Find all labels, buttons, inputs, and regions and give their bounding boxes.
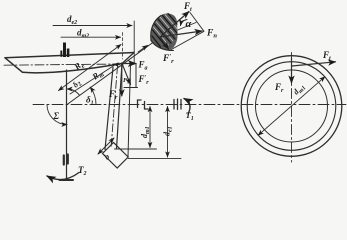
svg-text:de2: de2	[67, 14, 77, 26]
force F_t arrow at contact	[160, 12, 189, 38]
tooth contact hatched blob	[151, 14, 178, 50]
face width b dimension	[98, 138, 114, 154]
force F_n arrow at contact	[160, 31, 202, 37]
pinion body right edge	[117, 64, 123, 149]
force F_r arrow at P	[121, 64, 123, 97]
svg-text:Ft: Ft	[183, 1, 192, 13]
second break marks near T1	[174, 99, 181, 110]
d_m2 extension line	[121, 33, 123, 60]
pinion end cap	[103, 143, 129, 169]
wheel gear2 rim outline	[5, 53, 134, 73]
tooth flank outline left	[151, 16, 161, 41]
shaft break marks on vertical axis	[64, 155, 68, 165]
angle delta1 arc	[90, 87, 96, 104]
angle alpha arc	[181, 20, 188, 26]
hub key symbol	[60, 43, 69, 58]
R_m arrowhead on pitch line	[114, 63, 120, 66]
angle delta2 arc	[67, 89, 79, 95]
force F_a arrow at pitch point	[122, 63, 136, 65]
svg-text:T2: T2	[78, 165, 87, 177]
svg-text:dm2: dm2	[77, 28, 89, 40]
dimension d_e1 vertical	[167, 107, 169, 158]
pinion cone line OP extended to contact point	[67, 37, 161, 105]
svg-text:F′r: F′r	[162, 53, 174, 65]
svg-text:F′r: F′r	[138, 74, 150, 86]
d_m1 extension line	[115, 148, 157, 150]
force F'_r arrow at contact	[160, 37, 169, 49]
svg-text:Fa: Fa	[138, 60, 148, 72]
svg-text:dm1: dm1	[291, 82, 307, 98]
pinion end view middle circle	[247, 62, 336, 151]
svg-text:α: α	[186, 19, 192, 30]
tooth flank outline bottom	[151, 41, 174, 51]
shaft end bar	[60, 179, 74, 181]
pitch point P junction	[121, 62, 124, 65]
svg-text:δ2: δ2	[71, 78, 84, 91]
d_e2 extension line	[133, 21, 135, 63]
svg-text:T1: T1	[186, 110, 194, 122]
svg-text:Ft: Ft	[322, 50, 331, 62]
pinion back edge and d_m2 extension	[128, 64, 131, 157]
wheel vertical axis shaft	[66, 70, 68, 180]
force F_r on circle	[291, 58, 293, 83]
wheel pitch dash-dot line	[4, 64, 122, 65]
vertical centerline of circle	[291, 53, 293, 163]
pinion mid dash-dot	[111, 66, 118, 148]
force F_t on circle	[292, 62, 336, 66]
torque arrow T1	[184, 99, 190, 115]
pinion end view outer circle	[241, 56, 342, 157]
diameter d_m1 diagonal	[258, 77, 325, 136]
cone distance R_e dimension line	[59, 45, 122, 91]
contact tangent line through blob	[161, 23, 197, 38]
R_e arrowhead on cone line	[138, 45, 148, 52]
pinion horizontal axis dash-dot	[33, 104, 346, 106]
svg-text:Σ: Σ	[53, 111, 60, 121]
svg-text:Fr: Fr	[274, 82, 284, 94]
dimension d_m2	[61, 36, 121, 38]
svg-text:dm1: dm1	[140, 126, 151, 138]
svg-text:de1: de1	[163, 126, 174, 136]
force parallelogram sides	[170, 13, 205, 51]
dimension d_m1 vertical	[149, 107, 151, 148]
R_m dimension line	[70, 66, 114, 95]
d_e1 extension line	[128, 158, 181, 160]
angle Sigma arc	[47, 105, 67, 125]
pinion end view inner circle	[256, 70, 328, 142]
force rectangle at P	[124, 64, 138, 88]
shaft break marks on horizontal axis	[138, 100, 149, 109]
svg-text:Fn: Fn	[206, 29, 217, 40]
svg-text:Rm: Rm	[89, 67, 106, 84]
pinion body left edge	[105, 68, 113, 150]
resultant arrow at P	[122, 64, 131, 85]
dimension d_e2	[53, 25, 132, 27]
torque arrow T2	[47, 173, 79, 180]
